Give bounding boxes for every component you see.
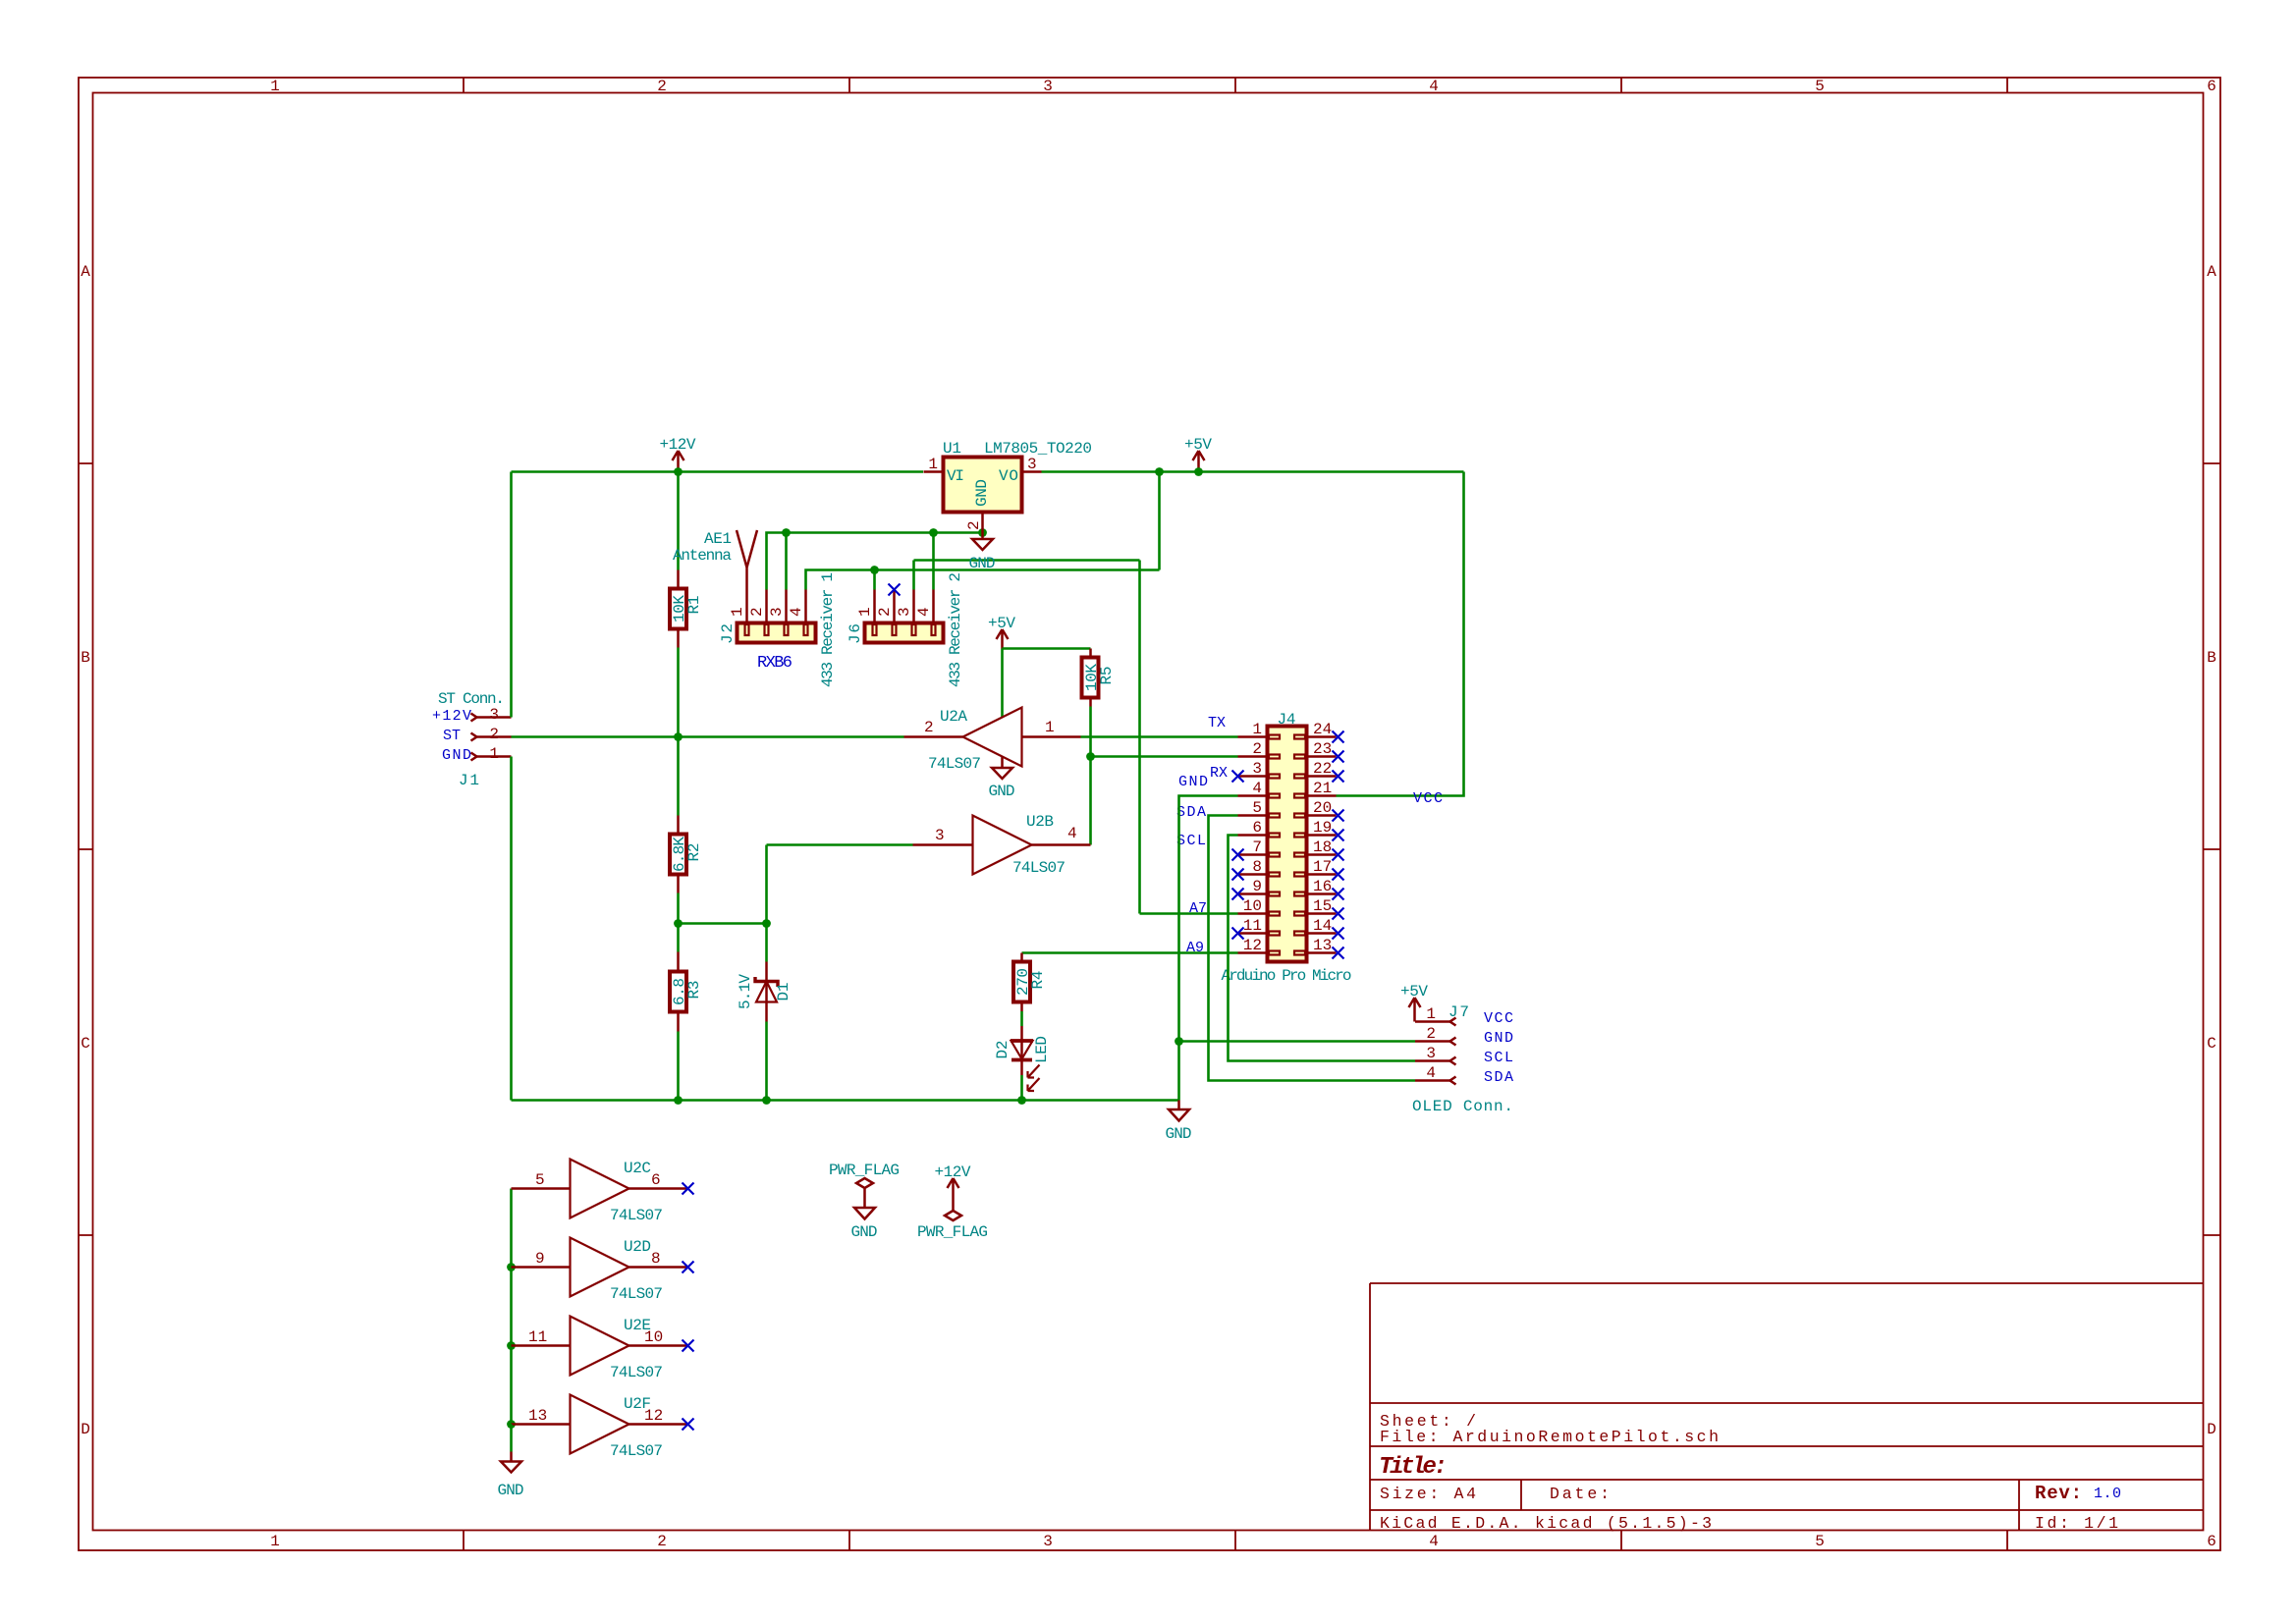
svg-text:A: A [2207,263,2216,281]
wire R4 to D2 [1020,1011,1023,1026]
svg-text:1: 1 [1252,721,1262,738]
U2C output pin 6 [629,1171,688,1189]
svg-text:1: 1 [270,1533,280,1550]
svg-text:5: 5 [1252,799,1262,817]
connector J7 pin 1 [1415,1018,1456,1026]
frame column ticks top [464,78,2007,93]
frame column labels bottom [270,1533,2216,1550]
svg-text:3: 3 [1027,456,1037,473]
U2D output pin 8 [629,1250,688,1268]
svg-text:Arduino Pro Micro: Arduino Pro Micro [1222,967,1352,985]
svg-text:PWR_FLAG: PWR_FLAG [917,1223,988,1241]
junction +5V rail at symbol [1194,467,1203,476]
svg-text:+12V: +12V [935,1163,971,1181]
power symbol +5V at rail [1193,451,1205,472]
wire J2 pin4 to +5V feed line [806,570,1160,590]
svg-text:GND: GND [442,747,471,764]
svg-text:74LS07: 74LS07 [1012,859,1066,877]
no-connect x marks J4 left pins [1232,771,1244,940]
ground symbol at U1 [972,533,993,551]
svg-text:+5V: +5V [1400,983,1428,1001]
wire J6 pin4 stub [932,533,935,590]
U2A output pin 1 [1022,719,1081,737]
svg-text:1: 1 [1426,1005,1436,1023]
buffer U2E triangle [571,1317,629,1376]
connector J1 pin 3 line [471,714,512,722]
svg-text:D: D [2207,1421,2216,1438]
svg-text:11: 11 [528,1328,547,1346]
U2B output pin 4 [1032,825,1091,845]
svg-text:2: 2 [489,726,499,743]
wire RX line from R5 junction [1091,755,1238,758]
frame row labels right [2207,263,2216,1438]
wire R5 junction down to U2B output [1089,757,1092,845]
junction ST at R1/R2 [674,732,683,741]
svg-text:RXB6: RXB6 [757,654,793,673]
J4 right pin lines [1307,737,1337,953]
junction gates column at U2E [507,1341,516,1350]
wire J2 pin2 up to gnd line [767,533,787,590]
junction gnd rail at R3 [674,1096,683,1105]
no-connect x marks J4 right pins [1333,731,1344,959]
antenna AE1 [737,530,757,590]
svg-text:4: 4 [1426,1064,1436,1082]
svg-text:D: D [81,1421,90,1438]
wire D1 bottom to gnd rail [765,1022,768,1101]
junction gnd rail at D2 [1017,1096,1026,1105]
junction gnd line at J6 pin4 [929,528,938,537]
svg-text:3: 3 [768,607,786,617]
svg-text:4: 4 [1429,1533,1439,1550]
connector J1 pin 1 line [471,753,512,761]
svg-text:1: 1 [1045,719,1055,736]
svg-text:GND: GND [851,1223,878,1241]
J6 pin numbers [856,607,933,617]
wire gates column to ground [510,1425,513,1452]
svg-text:GND: GND [989,783,1015,800]
svg-text:9: 9 [1252,878,1262,895]
svg-text:5: 5 [1815,1533,1825,1550]
svg-text:2: 2 [1426,1025,1436,1043]
svg-text:21: 21 [1313,780,1332,797]
resistor R3 [670,952,686,1032]
svg-text:VI: VI [947,467,964,485]
svg-text:GND: GND [1166,1125,1192,1143]
wire J6 pin3 up [912,561,915,590]
wire R2 bottom [677,893,680,924]
resistor R1 [670,570,686,648]
U2B input pin 3 [913,827,973,845]
svg-text:2: 2 [965,520,983,530]
svg-text:433 Receiver 1: 433 Receiver 1 [819,572,837,687]
svg-text:J1: J1 [459,772,479,789]
power flag PWR_FLAG on +12V [945,1211,961,1220]
svg-text:+12V: +12V [432,708,471,725]
svg-text:20: 20 [1313,799,1332,817]
U2E input pin 11 [512,1328,571,1346]
svg-text:24: 24 [1313,721,1332,738]
svg-text:+5V: +5V [988,615,1015,632]
svg-text:5: 5 [1815,78,1825,95]
J4 right pin numbers [1313,721,1332,954]
wire +5V rail down right side [1337,472,1464,796]
wire +5V down to U2A power [1001,649,1004,719]
wire +5V rail from U1 VO [1042,470,1464,473]
svg-text:2: 2 [748,607,766,617]
buffer U2A triangle [963,708,1022,767]
svg-text:GND: GND [1178,774,1208,790]
svg-text:ST Conn.: ST Conn. [438,690,505,708]
wire J4 pin4 GND down [1179,796,1238,1101]
no-connect x U2D output [683,1262,694,1273]
title block box [1370,1283,2204,1531]
svg-text:2: 2 [657,78,667,95]
connector J2 body [738,590,816,643]
regulator U1 body [944,458,1022,513]
svg-text:PWR_FLAG: PWR_FLAG [829,1162,900,1179]
svg-text:R3: R3 [685,981,703,1000]
svg-text:3: 3 [489,706,499,724]
resistor R2 [670,816,686,893]
connector J7 pin 2 [1415,1038,1456,1046]
junction GND column to J7 [1175,1037,1183,1046]
junction +5V feed at J6 pin1 [870,566,879,574]
svg-text:4: 4 [1429,78,1439,95]
svg-text:23: 23 [1313,740,1332,758]
svg-text:B: B [81,649,90,667]
wire J1 pin3 up to +12V rail [510,472,513,718]
ground symbol at PWR_FLAG [854,1208,875,1219]
svg-text:3: 3 [1043,1533,1053,1550]
svg-text:C: C [2207,1035,2216,1053]
J1 pin numbers [489,706,499,763]
svg-text:13: 13 [1313,937,1332,954]
svg-text:22: 22 [1313,760,1332,778]
power flag PWR_FLAG on GND [856,1178,873,1208]
svg-text:16: 16 [1313,878,1332,895]
wire J6 pin1 stub [873,570,876,590]
wire J2 pin3 stub [785,533,788,590]
svg-text:TX: TX [1208,715,1226,731]
svg-text:17: 17 [1313,858,1332,876]
J6 pin slots [873,624,936,635]
connector J1 pin 2 line [471,733,512,741]
no-connect x U2E output [683,1340,694,1352]
svg-text:SCL: SCL [1176,833,1206,849]
svg-text:1: 1 [856,607,874,617]
svg-text:4: 4 [788,607,805,617]
ground symbol at gates [501,1452,521,1473]
wire J4 pin6 SCL down [1229,836,1416,1061]
svg-text:3: 3 [935,827,945,844]
svg-text:LED: LED [1033,1036,1051,1063]
J2 pin numbers [729,607,805,617]
junction +12V rail at R1 [674,467,683,476]
wire J4 pin12 A9 [1022,951,1238,954]
zener diode D1 [755,962,778,1022]
svg-text:OLED Conn.: OLED Conn. [1412,1098,1513,1115]
svg-text:19: 19 [1313,819,1332,837]
junction at D1 [762,919,771,928]
svg-text:3: 3 [1043,78,1053,95]
svg-text:GND: GND [969,555,996,572]
svg-text:1: 1 [270,78,280,95]
svg-text:Date:: Date: [1550,1485,1610,1503]
svg-text:2: 2 [1252,740,1262,758]
junction gates column at U2F [507,1420,516,1429]
ground symbol at gnd rail [1169,1101,1189,1121]
svg-text:J7: J7 [1449,1003,1469,1021]
svg-text:VCC: VCC [1413,790,1443,807]
svg-text:2: 2 [924,719,934,736]
svg-text:C: C [81,1035,90,1053]
svg-text:SDA: SDA [1484,1069,1513,1086]
frame row labels left [81,263,90,1438]
svg-text:U2F: U2F [624,1395,651,1413]
wire R1 to ST line [677,648,680,737]
power symbol +5V above R5 [997,629,1009,649]
svg-text:Id: 1/1: Id: 1/1 [2035,1514,2118,1533]
U2E output pin 10 [629,1328,688,1346]
U2D input pin 9 [512,1250,571,1268]
svg-text:6: 6 [2207,78,2216,95]
svg-text:74LS07: 74LS07 [610,1364,663,1381]
svg-text:SCL: SCL [1484,1050,1513,1066]
svg-text:Rev:: Rev: [2035,1483,2082,1504]
svg-text:D2: D2 [994,1041,1011,1059]
wire J4 pin5 SDA down [1209,816,1416,1081]
resistor R5 [1082,649,1099,707]
svg-text:2: 2 [876,607,894,617]
svg-text:A: A [81,263,90,281]
wire gnd line J2 to U1 [787,531,983,534]
junction gnd rail at D1 [762,1096,771,1105]
J7 pin numbers [1426,1005,1436,1082]
svg-text:4: 4 [1252,780,1262,797]
svg-text:433 Receiver 2: 433 Receiver 2 [947,572,964,687]
svg-text:U1: U1 [943,440,961,458]
frame row ticks left [79,463,93,1235]
buffer U2B triangle [973,816,1032,875]
J4 left pin lines [1238,737,1268,953]
wire ST from J1 to U2A [512,735,904,738]
svg-text:7: 7 [1252,839,1262,856]
svg-text:GND: GND [498,1482,524,1499]
power symbol +12V [673,451,684,472]
svg-text:15: 15 [1313,897,1332,915]
svg-text:D1: D1 [775,983,793,1001]
svg-text:10: 10 [1243,897,1262,915]
svg-text:4: 4 [1067,825,1077,842]
U2C input pin 5 [512,1171,571,1189]
wire J4 pin10 A7 [1140,912,1238,915]
svg-text:GND: GND [973,479,991,507]
svg-text:AE1: AE1 [704,530,732,548]
svg-text:VCC: VCC [1484,1010,1513,1027]
svg-text:3: 3 [1252,760,1262,778]
svg-text:Antenna: Antenna [673,547,732,565]
svg-text:74LS07: 74LS07 [610,1285,663,1303]
wire R3 top [677,924,680,952]
svg-text:2: 2 [657,1533,667,1550]
svg-text:74LS07: 74LS07 [928,755,981,773]
wire bottom gnd rail [512,1099,1179,1102]
svg-text:9: 9 [535,1250,545,1268]
svg-text:U2E: U2E [624,1317,651,1334]
wire spare gates input column [510,1189,513,1425]
svg-text:3: 3 [1426,1045,1436,1062]
connector J6 body [865,590,944,643]
J4 left pin slots [1269,735,1280,955]
junction +5V rail at receiver feed [1155,467,1164,476]
resistor R4 [1013,953,1030,1012]
svg-text:LM7805_TO220: LM7805_TO220 [984,440,1092,458]
svg-text:12: 12 [1243,937,1262,954]
svg-text:J6: J6 [847,623,864,644]
svg-text:VO: VO [999,467,1018,485]
svg-text:U2A: U2A [940,708,967,726]
U1 pin 2 GND [965,479,991,533]
no-connect x U2F output [683,1419,694,1431]
wire J6 pin3 to A7 column [914,559,1140,562]
J2 pin slots [745,624,808,635]
LED D2 [1011,1026,1040,1091]
J4 right pin slots [1294,735,1305,955]
svg-text:8: 8 [1252,858,1262,876]
wire TX from U2A to J4 [1081,735,1238,738]
svg-text:5: 5 [535,1171,545,1189]
frame column ticks bottom [464,1531,2007,1551]
svg-text:R4: R4 [1029,971,1047,990]
U2A input pin 2 [904,719,963,737]
wire GND to J7 pin2 [1179,1040,1416,1043]
connector J7 pin 3 [1415,1057,1456,1065]
connector J4 body [1268,727,1307,962]
svg-text:GND: GND [1484,1030,1513,1047]
svg-text:U2B: U2B [1026,813,1054,831]
svg-text:ST: ST [443,728,461,744]
junction gnd line at J2 pin3 [782,528,791,537]
junction gates column at U2D [507,1263,516,1271]
svg-text:1: 1 [729,607,746,617]
svg-text:6: 6 [2207,1533,2216,1550]
svg-text:R2: R2 [685,843,703,862]
wire +5V to R5 top [1003,647,1091,650]
svg-text:6: 6 [1252,819,1262,837]
U2A open-collector gnd symbol [992,757,1012,780]
junction gnd line at U1 pin2 [978,528,987,537]
wire +5V feed up to rail [1158,472,1161,570]
svg-text:J2: J2 [719,623,737,644]
svg-text:4: 4 [915,607,933,617]
J4 left pin numbers [1243,721,1262,954]
svg-text:1.0: 1.0 [2094,1486,2121,1502]
wire node to D1 [679,922,767,925]
connector J7 pin 4 [1415,1077,1456,1085]
frame row ticks right [2204,463,2221,1235]
no-connect x U2C output [683,1183,694,1195]
svg-text:6: 6 [651,1171,661,1189]
buffer U2F triangle [571,1395,629,1454]
U1 pin 3 VO [999,456,1042,485]
svg-text:J4: J4 [1278,711,1296,729]
wire J1 gnd down left side [510,757,513,1101]
junction R2/R3 node [674,919,683,928]
svg-text:SDA: SDA [1176,804,1206,821]
wire R5 bottom to junction [1089,707,1092,757]
wire D1 node vertical to U2B line [765,845,768,924]
svg-text:74LS07: 74LS07 [610,1442,663,1460]
svg-text:1: 1 [928,456,938,473]
buffer U2D triangle [571,1238,629,1297]
svg-text:74LS07: 74LS07 [610,1207,663,1224]
svg-text:3: 3 [896,607,913,617]
svg-text:+5V: +5V [1184,436,1212,454]
U1 pin 1 VI [924,456,965,485]
svg-text:RX: RX [1210,765,1228,782]
wire +12V rail [512,470,924,473]
wire R2 top [677,737,680,816]
wire D1 top from node [765,924,768,962]
frame column labels top [270,78,2216,95]
svg-text:11: 11 [1243,917,1262,935]
svg-text:B: B [2207,649,2216,667]
svg-text:5.1V: 5.1V [737,974,754,1009]
svg-text:Title:: Title: [1379,1454,1448,1481]
wire +12V rail down to R1 [677,472,680,570]
wire U2B input from D1 node [767,843,913,846]
wire A7 column down [1138,561,1141,914]
U2F input pin 13 [512,1407,571,1425]
power symbol +12V at PWR_FLAG [948,1178,959,1211]
svg-text:R5: R5 [1098,667,1116,685]
svg-text:18: 18 [1313,839,1332,856]
wire R3 bottom to gnd rail [677,1032,680,1101]
svg-text:U2D: U2D [624,1238,651,1256]
no-connect x on J6 pin 2 [889,584,901,596]
junction R5 bottom [1086,752,1095,761]
svg-text:+12V: +12V [660,436,696,454]
U2F output pin 12 [629,1407,688,1425]
svg-text:1: 1 [489,745,499,763]
svg-text:13: 13 [528,1407,547,1425]
svg-text:R1: R1 [685,596,703,615]
buffer U2C triangle [571,1160,629,1218]
svg-text:U2C: U2C [624,1160,651,1177]
svg-text:8: 8 [651,1250,661,1268]
svg-text:14: 14 [1313,917,1332,935]
wire D2 to gnd rail [1020,1075,1023,1101]
power symbol +5V at J7 [1409,998,1421,1022]
